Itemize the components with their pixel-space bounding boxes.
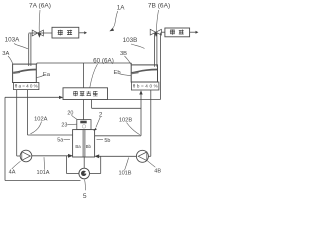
svg-text:60 (6A): 60 (6A)	[93, 58, 114, 65]
svg-text:1A: 1A	[117, 4, 126, 11]
svg-text:Eb: Eb	[113, 70, 120, 76]
svg-text:4B: 4B	[154, 168, 161, 174]
svg-text:101A: 101A	[36, 170, 49, 176]
svg-text:102B: 102B	[119, 118, 132, 124]
svg-text:5b: 5b	[104, 138, 110, 144]
svg-text:23: 23	[61, 123, 67, 129]
svg-text:Ba: Ba	[75, 144, 81, 149]
svg-text:20: 20	[67, 111, 73, 117]
svg-text:θa=40%: θa=40%	[15, 83, 38, 88]
svg-text:102A: 102A	[34, 116, 47, 122]
svg-text:7A (6A): 7A (6A)	[29, 2, 51, 9]
svg-text:3B: 3B	[120, 51, 127, 57]
svg-text:Bb: Bb	[86, 144, 92, 149]
svg-text:5a: 5a	[57, 138, 63, 144]
svg-text:7B (6A): 7B (6A)	[148, 2, 170, 9]
svg-text:4A: 4A	[9, 170, 16, 176]
svg-text:3A: 3A	[2, 51, 9, 57]
svg-text:2: 2	[99, 111, 103, 118]
svg-text:Ea: Ea	[43, 72, 51, 78]
svg-text:103A: 103A	[5, 37, 21, 44]
svg-text:101B: 101B	[118, 170, 131, 176]
svg-text:103B: 103B	[123, 37, 138, 44]
svg-text:θb=40%: θb=40%	[133, 83, 158, 88]
svg-text:5: 5	[83, 193, 87, 200]
